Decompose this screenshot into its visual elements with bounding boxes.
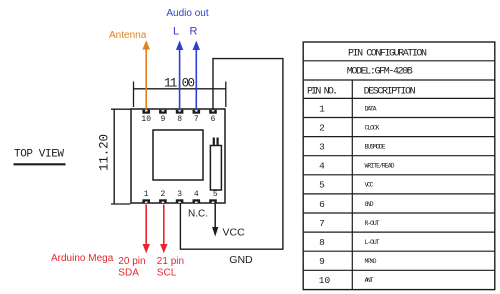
svg-text:7: 7 xyxy=(194,115,199,124)
svg-text:BUSMODE: BUSMODE xyxy=(365,144,386,151)
crystal Y1 (can with two leads) xyxy=(210,138,221,191)
svg-text:3: 3 xyxy=(319,142,325,153)
svg-text:11.20: 11.20 xyxy=(98,134,112,171)
table row 1 DATA xyxy=(319,103,376,114)
pin 10 pad xyxy=(142,110,150,114)
svg-text:GND: GND xyxy=(229,254,253,266)
svg-text:PIN NO.: PIN NO. xyxy=(307,87,338,98)
svg-text:GND: GND xyxy=(365,201,374,208)
svg-text:10: 10 xyxy=(319,275,331,286)
pin 9 pad xyxy=(159,110,167,114)
svg-text:2: 2 xyxy=(160,190,165,199)
pin configuration table frame xyxy=(303,42,495,290)
svg-text:3: 3 xyxy=(177,190,182,199)
svg-text:9: 9 xyxy=(160,115,165,124)
svg-text:R: R xyxy=(190,26,198,38)
audio R arrow (pin 7) xyxy=(193,41,200,110)
module inner die square xyxy=(153,130,203,180)
svg-text:SDA: SDA xyxy=(118,267,139,278)
table row 4 WRITE/READ xyxy=(319,161,394,172)
svg-text:L: L xyxy=(173,26,179,38)
SDA arrow (pin 1 to Arduino pin 20) xyxy=(143,205,150,254)
svg-text:N.C.: N.C. xyxy=(188,209,208,220)
label TOP VIEW xyxy=(14,149,66,165)
svg-text:MODEL:GFM-420B: MODEL:GFM-420B xyxy=(347,66,413,77)
VCC arrow (pin 5) xyxy=(212,204,218,237)
table row 7 R-OUT xyxy=(319,218,379,229)
audio L arrow (pin 8) xyxy=(176,41,183,110)
svg-text:CLOCK: CLOCK xyxy=(365,124,380,131)
svg-text:VCC: VCC xyxy=(223,226,246,238)
svg-text:1: 1 xyxy=(144,190,149,199)
svg-text:DATA: DATA xyxy=(365,105,377,112)
svg-text:ANT: ANT xyxy=(365,277,374,284)
svg-text:1: 1 xyxy=(319,103,325,114)
table row 10 ANT xyxy=(319,275,374,286)
svg-text:4: 4 xyxy=(319,161,325,172)
svg-text:R-OUT: R-OUT xyxy=(365,220,380,227)
svg-text:9: 9 xyxy=(319,256,325,267)
table row 3 BUSMODE xyxy=(319,142,385,153)
pin 6 pad xyxy=(209,110,217,114)
table row 2 CLOCK xyxy=(319,122,379,133)
svg-text:6: 6 xyxy=(211,115,216,124)
svg-text:MPXO: MPXO xyxy=(365,258,377,265)
svg-text:PIN CONFIGURATION: PIN CONFIGURATION xyxy=(348,48,427,59)
table row 5 VCC xyxy=(319,180,373,191)
dimension 11.20 (height) xyxy=(98,109,131,204)
svg-text:5: 5 xyxy=(319,180,325,191)
svg-text:Arduino Mega: Arduino Mega xyxy=(51,253,114,264)
dimension 11.00 (width) xyxy=(134,77,226,107)
svg-text:DESCRIPTION: DESCRIPTION xyxy=(364,87,416,98)
pin 2 pad xyxy=(159,199,167,203)
svg-text:Antenna: Antenna xyxy=(109,30,147,41)
module U1 body outline (GFM-420B top view) xyxy=(131,109,225,203)
svg-text:Audio out: Audio out xyxy=(166,8,208,19)
svg-text:TOP VIEW: TOP VIEW xyxy=(14,149,64,161)
svg-text:4: 4 xyxy=(194,190,199,199)
table row 9 MPXO xyxy=(319,256,376,267)
pin 5 pad xyxy=(209,199,217,203)
pin 8 pad xyxy=(176,110,184,114)
svg-text:6: 6 xyxy=(319,199,325,210)
svg-text:SCL: SCL xyxy=(157,267,177,278)
SCL arrow (pin 2 to Arduino pin 21) xyxy=(160,205,167,254)
svg-text:8: 8 xyxy=(319,237,325,248)
svg-text:20 pin: 20 pin xyxy=(118,256,145,267)
wire GND loop (pin 6 to pin 3) xyxy=(180,59,283,250)
antenna arrow (pin 10) xyxy=(142,40,150,109)
svg-text:8: 8 xyxy=(177,115,182,124)
pin 3 pad xyxy=(176,199,184,203)
svg-text:2: 2 xyxy=(319,122,325,133)
pin 7 pad xyxy=(193,110,201,114)
table row 6 GND xyxy=(319,199,373,210)
svg-text:VCC: VCC xyxy=(365,182,374,189)
svg-text:WRITE/READ: WRITE/READ xyxy=(365,163,395,170)
pin 4 pad xyxy=(193,199,201,203)
svg-text:7: 7 xyxy=(319,218,325,229)
svg-text:5: 5 xyxy=(213,190,218,199)
pin 1 pad xyxy=(142,199,150,203)
table row 8 L-OUT xyxy=(319,237,379,248)
svg-text:21 pin: 21 pin xyxy=(157,256,184,267)
svg-text:L-OUT: L-OUT xyxy=(365,239,380,246)
svg-text:10: 10 xyxy=(141,115,151,124)
